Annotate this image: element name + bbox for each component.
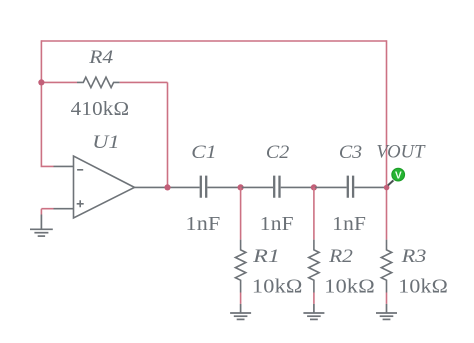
wire feedback top [41,40,386,42]
ground (R1) [230,304,251,320]
resistor R3 [381,187,391,304]
op-amp U1 [54,156,135,218]
capacitor C3 [348,176,387,198]
svg-text:VOUT: VOUT [376,141,425,162]
wire non-inverting input to ground [41,209,53,215]
node B junction dot at op-amp output [164,184,170,190]
wire right vertical VOUT feedback [386,40,388,187]
svg-text:C2: C2 [266,142,290,163]
ground (R3) [376,304,397,320]
svg-text:10kΩ: 10kΩ [324,275,375,297]
node C junction dot after C1 [238,184,244,190]
svg-text:1nF: 1nF [260,213,294,235]
svg-text:1nF: 1nF [186,213,221,235]
wire op-amp output main line [135,186,200,188]
svg-text:10kΩ: 10kΩ [252,275,303,297]
resistor R2 [309,187,319,304]
probe V stem [388,180,394,185]
svg-text:V: V [395,170,402,181]
node A junction dot at inverting input [38,79,44,85]
resistor R4 [41,77,167,87]
wire node C to C2 [242,186,273,188]
node D junction dot after C2 [311,184,317,190]
wire node D to C3 [315,186,347,188]
svg-text:10kΩ: 10kΩ [398,275,448,297]
ground (R2) [303,304,324,320]
svg-text:1nF: 1nF [332,213,366,235]
svg-text:C1: C1 [191,142,216,163]
svg-text:R1: R1 [252,246,280,267]
wire R4 output down to node [167,82,169,187]
svg-text:R4: R4 [88,47,114,68]
svg-text:410kΩ: 410kΩ [71,98,130,120]
svg-text:R2: R2 [328,246,353,267]
svg-text:U1: U1 [92,132,119,153]
ground (op-amp) [30,215,53,237]
resistor R1 [235,187,245,304]
capacitor C2 [274,176,312,198]
svg-text:R3: R3 [400,246,426,267]
capacitor C1 [201,176,240,198]
wire left vertical to inverting input [41,40,53,166]
svg-text:C3: C3 [339,142,362,163]
node VOUT junction dot [384,185,390,191]
probe V green circle [392,168,405,181]
